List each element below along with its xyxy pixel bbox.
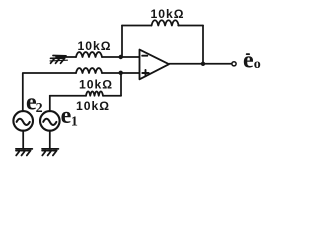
wire: feedback top horizontal right lead <box>178 25 203 27</box>
junction: non-inverting input node <box>119 71 123 75</box>
source e2 (AC source) <box>13 111 33 131</box>
wire: row2 right lead to op-amp non-inverting input <box>102 72 140 74</box>
wire: row2 left lead (e2 to R2) <box>23 72 76 74</box>
wire: feedback right vertical to output node <box>202 26 204 64</box>
svg-text:o: o <box>254 57 261 72</box>
resistor Rf 10k (feedback) <box>152 20 179 25</box>
resistor R2 10k (non-inverting input from e2) <box>76 68 102 73</box>
resistor R1 10k (inverting input) <box>76 52 102 57</box>
svg-text:10kΩ: 10kΩ <box>76 99 110 113</box>
svg-text:10kΩ: 10kΩ <box>151 7 185 21</box>
wire: row3 left lead (e1 to R3) <box>50 95 86 97</box>
svg-text:10kΩ: 10kΩ <box>78 39 112 53</box>
wire: feedback left vertical to inverting node <box>121 26 123 58</box>
label: output node e_o <box>243 47 261 73</box>
op-amp U1 non-inverting pin mark (+) <box>142 70 148 76</box>
wire: e1 bottom stub to ground <box>49 131 51 149</box>
svg-text:1: 1 <box>71 115 78 130</box>
op-amp U1 <box>140 50 170 80</box>
label: source e1 <box>61 103 78 129</box>
wire: row1 left lead (ground to R1) <box>56 56 76 58</box>
source e2 sine symbol <box>17 119 30 125</box>
wire: output from op-amp to terminal <box>169 63 232 65</box>
terminal: output open circle <box>232 62 236 66</box>
svg-text:10kΩ: 10kΩ <box>79 77 113 91</box>
junction: inverting input node <box>119 55 123 59</box>
wire: feedback top horizontal left lead <box>122 25 152 27</box>
wire: row2 vertical from source e2 <box>22 73 24 111</box>
wire: row1 right lead to op-amp inverting input <box>102 56 140 58</box>
resistor R3 10k (non-inverting input from e1) <box>86 91 103 95</box>
ground (below e2) <box>16 149 32 156</box>
wire: row3 right lead <box>103 95 121 97</box>
label: source e2 <box>26 90 43 117</box>
svg-text:e: e <box>243 47 254 73</box>
op-amp U1 inverting pin mark (-) <box>142 55 147 57</box>
source e1 (AC source) <box>40 111 60 131</box>
wire: e2 bottom stub to ground <box>22 131 24 149</box>
wire: row3 vertical from source e1 <box>49 96 51 112</box>
source e1 sine symbol <box>43 119 56 125</box>
ground (below e1) <box>42 149 58 156</box>
ground (inverting input resistor left end) <box>50 56 68 64</box>
junction: output node (feedback tap) <box>201 62 205 66</box>
wire: row3 vertical up to non-inverting node <box>120 73 122 96</box>
